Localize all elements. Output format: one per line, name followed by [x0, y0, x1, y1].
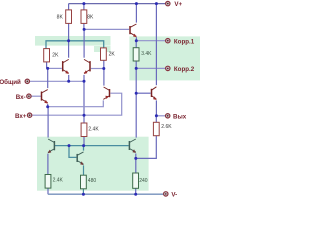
- wire R2 top lead: [83, 4, 85, 10]
- wire Q6 collector to Q9 emitter node: [47, 107, 49, 138]
- junction Q2 emitter: [83, 80, 86, 83]
- junction rail R2: [82, 2, 85, 5]
- resistor R9 480: [81, 175, 97, 189]
- wire V- rail: [48, 193, 163, 195]
- junction 2K right node: [102, 67, 105, 70]
- resistor R2 8K: [81, 10, 94, 24]
- wire 2K right bottom lead: [103, 60, 105, 68]
- svg-text:Корр.2: Корр.2: [174, 66, 195, 73]
- wire teal Q8 collector stub: [83, 146, 85, 151]
- transistor Q8: [77, 152, 84, 165]
- wire Vyh: [156, 115, 165, 117]
- transistor Q1: [63, 59, 69, 74]
- svg-text:240: 240: [139, 178, 148, 184]
- svg-text:2K: 2K: [52, 52, 59, 58]
- svg-text:Общий: Общий: [0, 79, 21, 86]
- resistor R5 3.4K: [133, 48, 152, 61]
- wire teal mirror rail y=145.6: [55, 145, 129, 147]
- wire teal top: 2K left top to 2K right top: [46, 41, 104, 49]
- net highlight region right (Korr): [129, 36, 200, 80]
- svg-text:8K: 8K: [57, 14, 64, 20]
- svg-text:Корр.1: Корр.1: [174, 38, 195, 45]
- svg-text:V+: V+: [174, 1, 182, 8]
- svg-text:2.4K: 2.4K: [53, 178, 64, 184]
- wire Korr1: [136, 40, 165, 42]
- wire Q5 emitter to Vyh node: [155, 100, 157, 115]
- wire R10 bottom lead: [135, 188, 137, 194]
- wire Q3 base: [84, 28, 129, 30]
- terminal Korr1: [166, 38, 195, 45]
- junction mirror right: [82, 144, 85, 147]
- wire emitters node down to Vx+ node: [83, 81, 85, 115]
- junction mirror left: [68, 144, 71, 147]
- wire node to Q2 collector: [83, 29, 85, 57]
- junction Vx+ node: [83, 114, 86, 117]
- wire 2K left bottom lead: [46, 62, 48, 69]
- terminal V-: [164, 192, 178, 199]
- wire Q1 base: [48, 67, 62, 69]
- junction Q7 emitter node: [134, 157, 137, 160]
- resistor R8 2.4K: [45, 175, 63, 189]
- wire Q5 base: [136, 92, 150, 94]
- junction R2 bottom: [83, 28, 86, 31]
- svg-text:480: 480: [88, 178, 97, 184]
- wire Q9 collector to 2K left node: [47, 68, 49, 88]
- wire Q9 emitter stub: [47, 104, 49, 107]
- wire Q6 emitter to R8 top: [47, 154, 49, 175]
- resistor R3 2K: [44, 49, 59, 62]
- wire node to R7 top: [83, 115, 85, 123]
- junction rail R10: [134, 193, 137, 196]
- resistor R10 240: [133, 173, 148, 188]
- junction rail Q5: [155, 2, 158, 5]
- terminal Vyh: [166, 114, 187, 121]
- transistor Q6: [48, 139, 55, 153]
- wire Korr2: [136, 67, 165, 69]
- wire R5 bottom to node: [135, 61, 137, 68]
- terminal Obshchiy: [0, 79, 29, 86]
- transistor Q4 pnp: [103, 87, 109, 99]
- wire V+ to Q5 collector: [155, 4, 157, 86]
- wire R1 top lead: [68, 4, 70, 10]
- transistor Q9: [42, 90, 48, 104]
- svg-text:Вх+: Вх+: [15, 113, 27, 120]
- transistor Q7: [129, 139, 136, 153]
- transistor Q2: [84, 59, 90, 74]
- wire node to R10 top: [135, 158, 137, 173]
- wire Q1 emitter stub: [68, 75, 70, 81]
- wire R7 bottom to mirror node: [83, 137, 85, 146]
- svg-text:V-: V-: [171, 192, 177, 199]
- wire Q3 emitter stub to node: [135, 37, 137, 41]
- svg-text:3.4K: 3.4K: [141, 51, 152, 57]
- wire R8 bottom lead: [47, 188, 49, 194]
- terminal Vx-: [16, 94, 31, 101]
- resistor R4 2K: [101, 48, 116, 60]
- wire Q4 collector stub: [103, 69, 105, 86]
- svg-text:2.4K: 2.4K: [88, 127, 99, 133]
- junction rail R9: [82, 193, 85, 196]
- svg-text:Вых: Вых: [173, 114, 187, 121]
- terminal Korr2: [166, 66, 195, 73]
- wire Q2 emitter stub: [83, 75, 85, 81]
- wire Q8 emitter to R9 top: [83, 165, 85, 175]
- svg-text:2K: 2K: [109, 52, 116, 58]
- resistor R6 2.6K: [153, 122, 172, 135]
- wire Obshchiy to emitters: [30, 80, 84, 82]
- svg-text:8K: 8K: [87, 14, 94, 20]
- junction Q9 emitter: [46, 105, 49, 108]
- svg-text:Вх-: Вх-: [16, 94, 26, 101]
- net highlight region bottom: [37, 137, 149, 191]
- wire node to Q7 collector (long right vertical): [135, 68, 137, 137]
- wire teal Q8 base L: [69, 146, 76, 158]
- junction teal R1: [67, 39, 70, 42]
- wire R9 bottom lead: [82, 189, 84, 194]
- wire V+ rail: [69, 3, 166, 5]
- wire Vyh node to R6 top: [155, 116, 157, 123]
- wire Q9 base from Vx-: [32, 95, 42, 97]
- wire Q3 collector to rail: [135, 4, 137, 23]
- junction Q5 base: [135, 92, 138, 95]
- junction 2K left node: [46, 67, 49, 70]
- wire R1 bottom to Q1 collector: [68, 23, 70, 57]
- wire R6 bottom corner to Q7 emitter node: [136, 136, 157, 159]
- wire Vx+ to Q4 base jog: [32, 93, 122, 115]
- net highlight pocket at 2K right: [94, 46, 111, 52]
- terminal Vx+: [15, 113, 32, 120]
- transistor Q5: [152, 87, 157, 100]
- terminal V+: [166, 1, 183, 8]
- wire Q9 emitter to Q4 emitter: [48, 100, 104, 106]
- resistor R1 8K: [57, 10, 72, 24]
- wire Q2 base: [91, 68, 104, 70]
- wire Q7 emitter stub: [135, 154, 137, 159]
- junction Korr2 node: [135, 67, 138, 70]
- junction rail Q3: [135, 2, 138, 5]
- wire node to R5 top: [135, 41, 137, 48]
- junction Korr1 node: [135, 39, 138, 42]
- transistor Q3: [130, 24, 137, 37]
- resistor R7 2.4K: [81, 123, 99, 137]
- junction Q1 emitter: [67, 80, 70, 83]
- wire R2 bottom to node: [83, 23, 85, 29]
- net highlight band top: [35, 36, 111, 46]
- junction Vyh node: [155, 114, 158, 117]
- svg-text:2.6K: 2.6K: [161, 124, 172, 130]
